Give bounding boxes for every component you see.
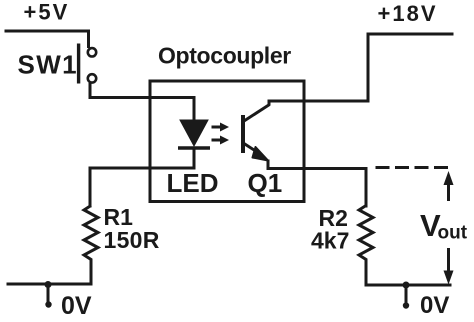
svg-text:out: out — [438, 223, 468, 244]
optocoupler box U1 — [150, 81, 304, 202]
svg-text:LED: LED — [167, 168, 219, 198]
wire dashed Vout line — [377, 166, 447, 169]
ground node right — [403, 282, 410, 309]
svg-text:Q1: Q1 — [248, 168, 283, 198]
switch SW1 — [79, 44, 97, 84]
svg-text:4k7: 4k7 — [311, 228, 349, 254]
wire LED cathode to R1 — [90, 148, 194, 206]
resistor R2 — [359, 206, 373, 285]
svg-text:150R: 150R — [104, 227, 160, 253]
transistor Q1 base bar — [241, 115, 245, 153]
wire +18V rail — [368, 34, 452, 101]
LED D1 triangle — [180, 120, 208, 146]
wire +5V rail — [6, 31, 89, 47]
wire bottom-left 0V rail — [8, 283, 91, 286]
wire collector to +18V — [269, 101, 368, 104]
Vout down arrow — [444, 248, 454, 285]
Vout up arrow — [444, 171, 454, 201]
wire SW1 lower lead — [90, 85, 194, 122]
resistor R1 — [84, 206, 98, 285]
svg-text:SW1: SW1 — [18, 50, 79, 80]
svg-text:Optocoupler: Optocoupler — [158, 43, 291, 69]
light arrow lower — [212, 136, 230, 145]
wire bottom-right 0V rail — [366, 284, 450, 285]
svg-text:+18V: +18V — [378, 1, 438, 26]
ground node left — [45, 281, 52, 308]
LED D1 cathode bar — [178, 146, 210, 150]
transistor Q1 emitter arrowhead — [253, 147, 269, 161]
transistor Q1 collector — [244, 105, 270, 122]
svg-text:0V: 0V — [420, 292, 449, 319]
transistor Q1 emitter — [244, 144, 261, 155]
svg-text:+5V: +5V — [24, 0, 70, 25]
wire emitter to R2 — [268, 161, 366, 206]
svg-text:0V: 0V — [61, 292, 92, 320]
light arrow upper — [212, 123, 230, 132]
